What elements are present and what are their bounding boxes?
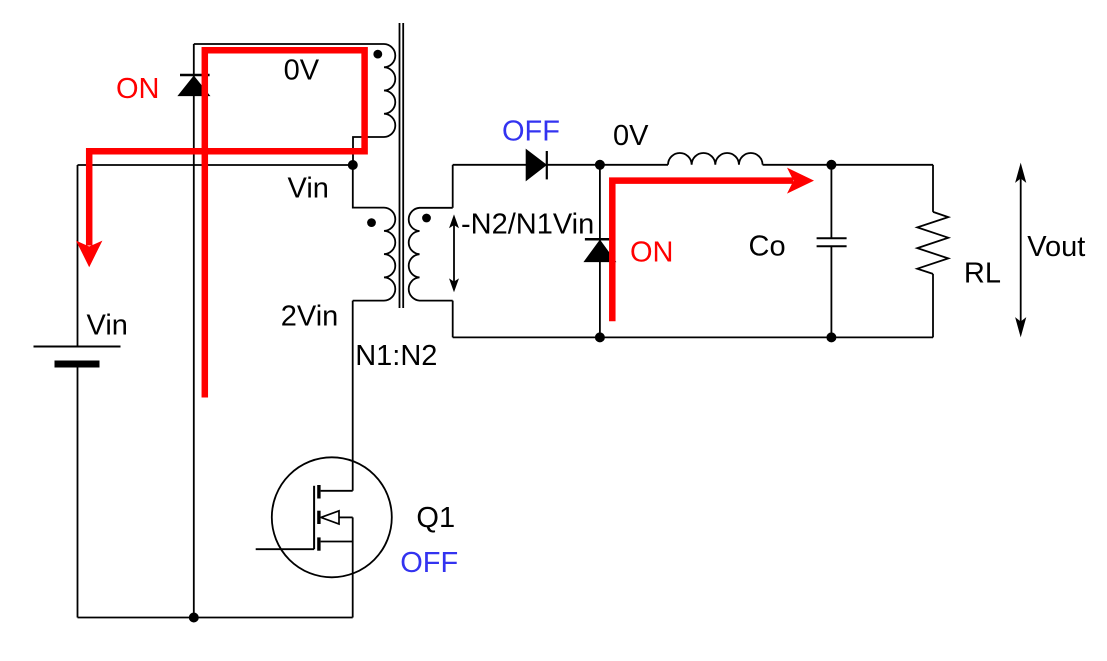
Vout arrow line [1020, 178, 1022, 322]
junction node Co bottom [826, 332, 836, 342]
svg-text:OFF: OFF [502, 116, 560, 148]
red current path output [612, 181, 793, 322]
wire secondary bottom rail [453, 336, 933, 338]
transformer primary winding [353, 208, 396, 301]
red current path clamp loop [89, 50, 364, 397]
transformer phase dot clamp [373, 50, 382, 59]
transformer secondary winding [409, 208, 453, 301]
diode D3 cathode bar (ON freewheel) [585, 238, 615, 241]
transistor Q1 body connection [339, 516, 353, 518]
diode D1 triangle [178, 76, 209, 95]
junction node 0V top [595, 160, 605, 170]
svg-text:0V: 0V [613, 120, 649, 152]
svg-text:Q1: Q1 [416, 502, 455, 534]
svg-text:N1:N2: N1:N2 [355, 340, 437, 372]
svg-text:RL: RL [964, 258, 1001, 290]
inductor L1 [668, 153, 763, 165]
svg-text:ON: ON [116, 73, 160, 105]
transistor Q1 channel bar drain [317, 485, 320, 499]
junction node Co top [826, 160, 836, 170]
diode D3 triangle [584, 240, 615, 261]
wire junction to primary winding [353, 165, 384, 208]
wire secondary top rail to inductor [453, 164, 668, 166]
diode D2 triangle (OFF rectifier) [526, 150, 546, 181]
wire freewheel branch vertical [599, 165, 601, 338]
Vout arrow head top [1016, 165, 1025, 182]
transistor Q1 drain connection [321, 490, 353, 492]
wire Co top lead [830, 165, 832, 239]
transistor Q1 channel bar source [317, 537, 320, 550]
voltage ref arrow N2/N1 head top [450, 216, 458, 227]
wire drain vertical (transformer to Q1) [352, 301, 354, 491]
transistor Q1 channel bar body [317, 511, 320, 524]
svg-text:2Vin: 2Vin [281, 301, 339, 333]
transistor Q1 gate line [313, 486, 315, 549]
red arrowhead down [76, 241, 102, 268]
transistor Q1 circle [272, 457, 392, 577]
transformer core line 2 [402, 23, 404, 308]
svg-text:OFF: OFF [400, 547, 458, 579]
wire top horizontal to clamp winding [194, 43, 384, 45]
diode D2 cathode bar [546, 151, 548, 179]
transistor Q1 source connection [321, 541, 353, 543]
battery V1 short plate [55, 361, 100, 368]
diode D1 cathode bar [180, 74, 210, 77]
svg-text:Vin: Vin [288, 172, 329, 204]
wire secondary bottom vertical [452, 301, 454, 338]
voltage ref arrow N2/N1 head bottom [450, 280, 458, 291]
wire gate lead [256, 548, 314, 550]
wire RL top lead [932, 165, 934, 212]
wire top-left rail (battery + to transformer node) [78, 164, 353, 166]
junction node ground-diode [189, 613, 199, 623]
wire source vertical to ground rail [352, 517, 354, 617]
voltage ref arrow N2/N1 line [453, 223, 455, 284]
wire battery left vertical (bottom) [77, 368, 79, 618]
transistor Q1 body arrow [321, 511, 339, 524]
transformer phase dot secondary [422, 214, 431, 223]
transformer core line 1 [399, 23, 401, 308]
junction node Vin [348, 160, 358, 170]
resistor RL zigzag [917, 212, 948, 274]
svg-text:-N2/N1Vin: -N2/N1Vin [461, 209, 594, 241]
wire RL bottom lead [932, 274, 934, 338]
svg-text:0V: 0V [284, 55, 320, 87]
svg-text:Vout: Vout [1027, 231, 1085, 263]
wire Co bottom lead [830, 246, 832, 337]
wire secondary top vertical [452, 165, 454, 208]
svg-text:Co: Co [749, 230, 786, 262]
wire clamp diode branch vertical [193, 44, 195, 618]
junction node freewheel bottom [595, 332, 605, 342]
svg-text:Vin: Vin [87, 310, 128, 342]
battery V1 long plate [34, 346, 121, 348]
Vout arrow head bottom [1016, 319, 1025, 336]
capacitor Co plate bottom [817, 245, 847, 247]
wire bottom ground rail (primary) [78, 617, 353, 619]
transformer clamp winding (0V) [353, 44, 395, 165]
wire battery left vertical (top) [77, 165, 79, 347]
transformer phase dot primary [367, 218, 376, 227]
wire top rail inductor to RL [763, 164, 933, 166]
svg-text:ON: ON [630, 237, 674, 269]
capacitor Co plate top [817, 237, 847, 239]
red arrowhead right [787, 168, 814, 194]
